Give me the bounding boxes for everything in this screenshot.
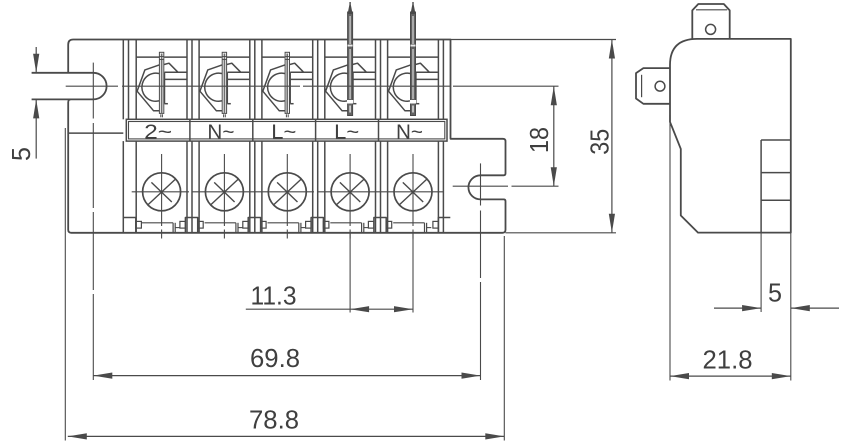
solder pin (tall), pole 4 [348,12,353,116]
side view: housing outline [670,39,791,233]
svg-text:11.3: 11.3 [251,283,297,311]
clamp screw, pole 3 [268,173,306,211]
side view: top solder tab [692,4,729,39]
label divider 1 [189,119,191,141]
svg-text:L~: L~ [334,121,359,143]
wire clamp cam, pole 2 [200,65,223,111]
dimension 5 (slot height) [35,47,37,72]
cells block left wall [122,40,124,120]
svg-text:N~: N~ [396,121,423,143]
dimension 69.8 (slot centers) [93,375,480,377]
svg-text:5: 5 [8,147,36,161]
dimension 35 (body height) [451,39,617,41]
clamp screw, pole 4 [331,173,369,211]
clamp chamber shelf, pole 1 [136,56,159,58]
notch centerline vertical (69.8 right extension) [480,163,482,205]
mounting slot (left, open) [32,72,94,74]
dimension 5 (latch depth) [760,233,762,312]
slot centerline vertical (69.8 left extension) [92,63,94,119]
svg-text:78.8: 78.8 [249,407,299,435]
label divider 4 [378,119,380,141]
wire clamp cam, pole 3 [263,65,286,111]
contact pin (short), pole 3 [285,52,289,113]
snap foot between pole 3/4 [311,218,323,233]
clamp screw, pole 2 [205,173,243,211]
solder pin (tall), pole 5 [411,12,416,116]
svg-text:L~: L~ [271,121,296,143]
slot centerline horizontal [66,85,118,87]
clamp chamber shelf, pole 4 [325,56,348,58]
dimension 21.8 (depth) [669,115,671,381]
divider wall between pole 1 and 2 [186,40,188,120]
screw centerline horizontal [132,191,189,193]
foot detail under pole 4 [330,222,361,224]
marking label strip [126,119,447,141]
cells block right wall [437,40,439,120]
screw centerline vertical, pole 1 [161,154,163,226]
foot detail under pole 2 [205,222,236,224]
label divider 2 [252,119,254,141]
left tab hole [655,81,665,91]
svg-text:5: 5 [768,280,782,308]
svg-text:2~: 2~ [144,121,172,143]
snap foot between pole 1/2 [185,218,197,233]
screw centerline vertical, pole 2 [223,154,225,226]
dimension 18 (slot to notch) [553,86,555,186]
svg-text:N~: N~ [207,121,234,143]
wire clamp cam, pole 1 [137,65,160,111]
right foot block [438,218,450,233]
left foot block [123,218,136,233]
contact pin (short), pole 1 [159,52,163,113]
dimension 78.8 (overall width) [64,128,66,441]
body split line (left) [68,132,123,134]
clamp chamber shelf, pole 5 [388,56,411,58]
svg-text:69.8: 69.8 [250,345,300,373]
foot detail under pole 3 [268,222,299,224]
divider wall between pole 2 and 3 [249,40,251,120]
clamp screw, pole 5 [394,173,432,211]
top tab hole [706,24,716,34]
svg-text:35: 35 [586,129,614,155]
divider wall between pole 4 and 5 [375,40,377,120]
dimension 11.3 (pole pitch) [349,233,351,313]
screw centerline vertical, pole 5 [412,154,414,226]
wire clamp cam, pole 5 [389,65,412,111]
wire clamp cam, pole 4 [326,65,349,111]
foot detail under pole 1 [142,222,173,224]
svg-text:21.8: 21.8 [703,347,753,375]
svg-text:18: 18 [526,127,554,153]
clamp chamber shelf, pole 3 [262,56,285,58]
snap foot between pole 4/5 [374,218,386,233]
label divider 3 [315,119,317,141]
screw centerline vertical, pole 3 [286,154,288,226]
foot detail under pole 5 [393,222,424,224]
clamp chamber shelf, pole 2 [199,56,222,58]
front view: terminal block body outline [68,40,505,233]
side view: latch steps [760,140,762,233]
contact pin (short), pole 2 [222,52,226,113]
side view: left solder tab [636,68,670,104]
screw centerline vertical, pole 4 [349,154,351,226]
snap foot between pole 2/3 [248,218,260,233]
clamp screw, pole 1 [143,173,181,211]
notch centerline horizontal (18 bottom extension) [453,185,508,187]
divider wall between pole 3 and 4 [312,40,314,120]
